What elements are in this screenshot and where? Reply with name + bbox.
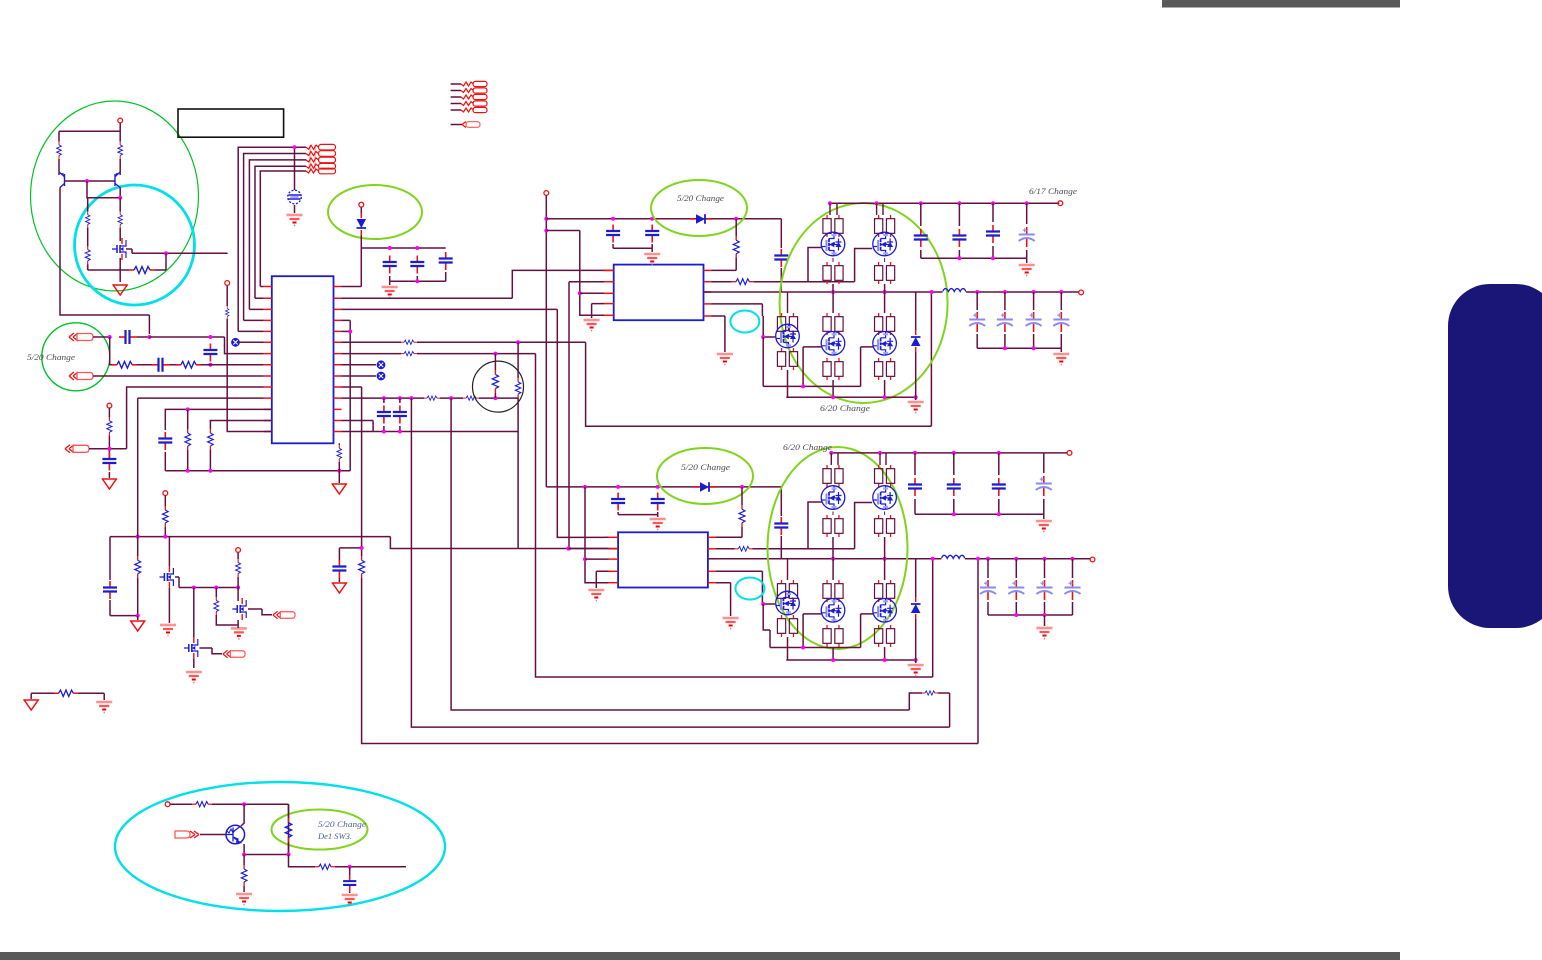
svg-text:De1 SW3.: De1 SW3. <box>317 831 352 841</box>
resistor R_bt1 <box>192 802 289 807</box>
green ellipse 5/20 lower <box>657 448 753 504</box>
junction pack row1 <box>293 145 297 149</box>
vert x361 feedback <box>359 387 978 744</box>
resistor R_tl5 <box>85 246 90 270</box>
resistor pack RP1 <box>306 144 336 173</box>
text 520 bottom <box>318 819 366 829</box>
resistor R_u1 <box>185 409 191 470</box>
junction bt3 <box>348 865 352 869</box>
green ellipse 5/20 diode <box>328 185 422 239</box>
row 398 wire <box>138 397 264 399</box>
IC U1 main controller <box>272 276 334 443</box>
mosfet Q3 small <box>112 238 126 282</box>
junction feeder <box>583 557 587 561</box>
lower pin4 gnd <box>588 571 608 600</box>
vert x411 loop <box>411 398 949 727</box>
wire bottom loop <box>88 264 121 270</box>
PWM U2 box <box>614 265 704 321</box>
pin5R gate wire l <box>716 571 775 604</box>
green ellipse 5/20 upper <box>651 180 747 236</box>
diode D_u2 <box>690 214 712 224</box>
junction gbus u2 <box>831 395 918 399</box>
rc bottom bus <box>165 470 350 472</box>
junction w536 <box>136 535 168 539</box>
wire top-left rail <box>59 130 120 132</box>
cap C_q1 <box>611 493 625 515</box>
wire bt emit <box>243 844 245 855</box>
cap C_r1 <box>377 398 391 431</box>
junction pin3tap <box>578 291 582 295</box>
pin7 res u <box>712 279 809 285</box>
x-circle nc row342 <box>232 338 264 346</box>
cap bank input wires u <box>921 203 1027 258</box>
junction bt2 <box>242 853 290 857</box>
junction rail u <box>611 217 738 221</box>
svg-text:5/20 Change: 5/20 Change <box>677 193 724 203</box>
wire bt vert right <box>288 804 290 854</box>
port diode top <box>359 202 364 217</box>
navy side tab <box>1448 284 1542 628</box>
row298 wire <box>342 270 614 298</box>
resistor R_tl2 <box>118 131 123 172</box>
connector CN1 left <box>69 333 110 341</box>
bootstrap vert l <box>774 487 788 559</box>
bottom gray footer bar <box>0 952 1400 960</box>
hgate wires u <box>808 248 872 282</box>
inductor L_u1 <box>943 289 966 292</box>
cap C_l2 down <box>203 344 217 367</box>
svg-text:6/20 Change: 6/20 Change <box>783 442 832 452</box>
text 5/20 upper <box>677 193 724 203</box>
junction r353 <box>493 352 497 356</box>
row342 net <box>342 292 932 426</box>
junction m1 <box>192 586 240 590</box>
cap series C_l1 <box>119 330 149 344</box>
rail VIN vertical <box>545 219 547 487</box>
wire Q2 emitter <box>119 198 121 212</box>
resistor R_u2 <box>208 429 214 471</box>
junction w548 <box>566 547 570 551</box>
diode D_l1 <box>694 482 716 492</box>
fet Q_l3 low <box>776 559 800 660</box>
x-circle row364 <box>342 361 386 369</box>
diode D_u3 <box>911 292 921 397</box>
fet Q_u4 low <box>803 292 845 397</box>
mosfet M3 small <box>184 588 245 683</box>
cap bank input l <box>908 476 1052 496</box>
resistor R_icgnd <box>337 443 342 483</box>
lower rail wire <box>546 486 781 488</box>
output caps u <box>969 292 1069 348</box>
svg-text:5/20 Change: 5/20 Change <box>318 819 366 829</box>
text 6/17 <box>1029 186 1077 196</box>
connector CN3 left <box>65 445 127 453</box>
port chain x238 <box>236 548 241 588</box>
ground triangle cn3 <box>102 479 116 489</box>
output cap bus l <box>988 613 1073 617</box>
drain rail l <box>831 452 1044 454</box>
wire branch 518 down <box>515 342 520 548</box>
text 5/20 change left <box>27 352 75 362</box>
junction rail l <box>583 485 744 489</box>
ground triangle bl <box>24 693 38 710</box>
row309 wire <box>342 309 605 537</box>
ground striped out l <box>1037 615 1053 639</box>
junction out u <box>975 290 1063 294</box>
junction out l <box>976 557 1075 561</box>
junction vin1 <box>544 217 548 233</box>
wire bt right <box>289 855 316 867</box>
power node VIN <box>544 191 549 219</box>
junction drail l <box>829 451 1001 455</box>
pin3 upper stub <box>580 292 604 294</box>
PWM U2 pin stubs <box>604 270 712 316</box>
ground striped bl <box>96 702 112 713</box>
ground striped caps <box>382 281 398 297</box>
fet Q_u2 high <box>873 203 897 292</box>
pin4R gnd u <box>712 316 733 365</box>
junction Q2e <box>118 196 122 200</box>
fet Q_u1 high <box>821 203 845 292</box>
green ellipse FET cluster l <box>768 447 908 649</box>
vert x585 feeder <box>585 487 609 583</box>
power node top-left <box>118 118 123 131</box>
wire bt coll <box>241 804 244 826</box>
junction drail u <box>828 201 1029 205</box>
gnd bus u2 <box>786 396 915 398</box>
junction gbus u <box>801 384 805 388</box>
lower pin2 wire <box>568 548 608 550</box>
port chain x227 pullup <box>225 281 272 432</box>
svg-text:6/20 Change: 6/20 Change <box>820 403 870 413</box>
junction r398 <box>382 396 498 400</box>
fet Q_l5 low <box>861 559 897 660</box>
port 6/17 out <box>1058 201 1063 206</box>
cyan ellipse l <box>736 578 765 600</box>
mosfet M1 small <box>159 537 176 636</box>
cap C_l3 <box>102 453 116 479</box>
junction cn1 <box>108 335 112 339</box>
cap branch x339 <box>332 546 363 593</box>
connector CN2 left <box>69 372 264 380</box>
fet Q_u3 low <box>776 292 800 397</box>
pin2 upper wire <box>569 281 604 283</box>
svg-text:5/20 Change: 5/20 Change <box>27 352 75 362</box>
upper rail wire <box>546 218 781 220</box>
junction sw l <box>831 557 935 561</box>
hgate wires l <box>808 502 872 549</box>
wire cap bus u <box>613 248 652 252</box>
cap C_r2 <box>393 398 407 431</box>
wire base down <box>87 181 120 198</box>
cap bank u1 <box>383 252 453 281</box>
junction bt1 <box>242 802 246 806</box>
ground striped bank l <box>1036 514 1052 531</box>
transistor Q2 (pnp) <box>115 172 120 198</box>
output caps l <box>980 559 1081 615</box>
wire base join <box>65 180 116 182</box>
row320 wire <box>342 320 351 470</box>
vert x451 loop <box>451 398 922 710</box>
green ellipse FET cluster u <box>780 203 948 403</box>
bus 615 wire <box>110 615 138 617</box>
cap C_q2 <box>651 493 665 515</box>
vert x110 branch <box>103 537 117 616</box>
junction cn1c <box>208 335 212 339</box>
junction bus431 <box>382 430 402 434</box>
wire cap bus l <box>618 515 658 517</box>
text 6/20 lower <box>783 442 832 452</box>
resistor Rc1 in circle <box>492 354 498 399</box>
green circle annotation 5/20 left <box>42 323 110 391</box>
ground striped l stage <box>908 660 924 676</box>
junction cn3 <box>107 447 111 451</box>
resistor R_tl6 horizontal <box>120 253 166 273</box>
resistor R_tl1 <box>57 131 62 172</box>
cap bank bus u <box>921 256 1027 260</box>
row387 right wire <box>342 386 362 388</box>
black circle annotation <box>473 361 524 412</box>
resistor R_q1 <box>712 487 745 537</box>
svg-text:5/20 Change: 5/20 Change <box>681 462 730 472</box>
junction gbus l2 <box>831 658 918 662</box>
svg-text:6/17 Change: 6/17 Change <box>1029 186 1077 196</box>
pin7 res l <box>716 546 808 551</box>
resistor R_bt4 <box>315 864 406 869</box>
text 5/20 lower <box>681 462 730 472</box>
text 6/20 upper <box>820 403 870 413</box>
bootstrap vert u <box>774 219 788 292</box>
lower pin1 wire <box>604 536 609 538</box>
gate vert down l <box>763 604 770 648</box>
output cap bus u <box>977 346 1061 350</box>
junction pin2net <box>567 547 571 551</box>
resistor R_b1 <box>214 588 238 626</box>
ground striped netTie <box>287 215 303 226</box>
row431 wire <box>342 431 374 433</box>
ground striped p <box>644 254 660 265</box>
junction db1 <box>388 246 420 250</box>
fet Q_u5 low <box>861 292 897 397</box>
bus 431 wire <box>342 421 519 432</box>
gate vert down u <box>762 337 764 386</box>
mosfet M2 small <box>231 588 295 639</box>
wire Q1 emitter long <box>0 0 1 1</box>
row 364 rc chain <box>110 337 264 372</box>
green ellipse bottom <box>272 810 368 850</box>
inductor L_l1 <box>941 555 965 558</box>
switch rail u <box>704 291 943 293</box>
transistor Q_b1 <box>226 825 245 844</box>
diode D_l3 <box>911 559 921 660</box>
wire netTie drop <box>294 147 296 190</box>
wire cn1 to corner <box>149 337 263 354</box>
lower pin3 wire <box>585 558 609 560</box>
ground striped bank u <box>1019 258 1035 275</box>
rc net top bus <box>165 407 271 430</box>
switch rail l <box>708 558 941 560</box>
cap C_u1 <box>158 432 172 471</box>
ground striped out u <box>1053 348 1069 364</box>
wire bl <box>31 692 54 694</box>
port chain x109 <box>107 403 112 460</box>
long wire 536 <box>110 537 618 549</box>
resistor R_p1 <box>712 219 740 271</box>
rc row 419 <box>210 421 271 430</box>
PWM U3 pin stubs <box>609 537 716 582</box>
pin4 upper gnd <box>584 304 604 331</box>
pin5R gate wire u <box>712 304 776 337</box>
port x165 chain <box>162 491 168 537</box>
diode D_u1 down <box>357 213 367 248</box>
green ellipse annotation (top-left) <box>31 101 199 291</box>
junction r342 <box>516 340 520 344</box>
resistor R_cs2 low <box>922 691 950 700</box>
resistor R_bt3 <box>241 855 247 893</box>
wire diode bus <box>361 247 445 249</box>
ground striped bt2 <box>342 895 358 906</box>
junction gate l <box>761 602 765 606</box>
cyan circle annotation (top-left) <box>75 185 195 305</box>
text de1 sw3 <box>317 831 352 841</box>
ground striped q <box>650 519 666 530</box>
PWM U3 box <box>618 532 708 587</box>
x-circle row376 <box>342 372 386 380</box>
top gray header bar <box>1162 0 1400 8</box>
pin4R gnd l <box>716 583 739 629</box>
ground triangle tl <box>113 285 127 295</box>
drain rail u <box>830 202 1059 204</box>
junction gbus l <box>801 646 805 650</box>
gnd bus l1 <box>770 647 861 649</box>
cap C_bt <box>343 867 356 893</box>
output rail l <box>965 557 1095 562</box>
fet Q_l4 low <box>803 559 845 660</box>
m1 drain wire <box>175 577 238 588</box>
row353 net <box>342 351 933 677</box>
wire bt bus <box>244 854 288 856</box>
cap bank input wires l <box>915 453 1044 514</box>
ground triangle icb <box>332 484 346 494</box>
resistor R_bl h <box>54 690 78 696</box>
junction rc1 <box>186 469 342 473</box>
fet Q_l2 high <box>873 453 897 559</box>
m2 fix <box>237 625 239 628</box>
gnd bus u1 <box>763 385 860 387</box>
cyan ellipse u <box>730 311 759 333</box>
gnd bus l2 <box>786 659 915 661</box>
junction gate u <box>761 335 765 339</box>
wire bl2 <box>78 693 104 700</box>
row 387 wire <box>127 387 264 449</box>
cap C_p2 <box>645 225 659 249</box>
resistor R_tl3 <box>86 198 90 246</box>
black box <box>178 109 284 137</box>
vert x137 branch <box>135 398 141 615</box>
vert pin2 net <box>568 282 570 549</box>
cap bank input u <box>914 225 1035 247</box>
resistor R_tl4 <box>118 212 122 241</box>
resistor pack RP2 <box>451 81 487 112</box>
cyan ellipse bottom <box>115 782 445 911</box>
connector single top-right <box>451 122 480 128</box>
row331 wire <box>342 329 353 333</box>
cap bank bus l <box>915 512 1044 516</box>
resistor R_bt2 <box>285 804 291 854</box>
transistor Q1 (pnp) <box>59 172 149 334</box>
connector CN_b <box>175 831 226 838</box>
junction sw u <box>831 290 934 294</box>
IC pin stubs <box>264 287 342 432</box>
port lower in <box>1044 451 1072 456</box>
junction cn1b <box>147 335 151 339</box>
port bottom <box>165 802 192 807</box>
junction b615 <box>136 614 140 618</box>
junction base <box>85 179 89 183</box>
net tie symbol <box>288 190 302 213</box>
cap bank bus <box>390 279 446 283</box>
row286 wire <box>342 248 362 287</box>
row398 bus <box>342 396 519 400</box>
ground striped bt1 <box>236 894 252 905</box>
ground striped u stage <box>908 397 924 412</box>
bus wires to resistor pack RP1 <box>238 147 306 331</box>
stub vin to 579 <box>546 231 604 316</box>
ground triangle b615 <box>131 616 145 631</box>
wire Q3 drain out <box>126 249 228 253</box>
junction Q3 out <box>164 251 168 255</box>
fet Q_l1 high <box>821 453 845 559</box>
output rail u <box>966 290 1084 295</box>
cap C_p1 <box>606 225 620 249</box>
